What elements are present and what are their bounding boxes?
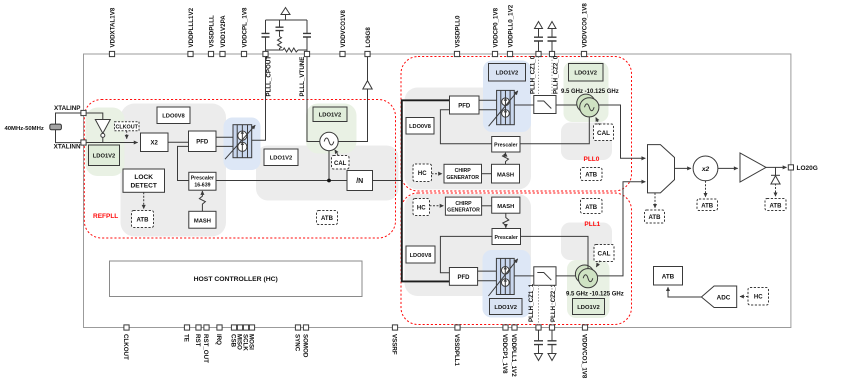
REFPLL PFD [189, 131, 217, 152]
PLL0 wire PFD to charge pump 1 [479, 99, 497, 101]
PLL0 PFD [450, 96, 480, 114]
PLL0 VCO 9.5-10.125 GHz [577, 94, 599, 117]
svg-text:LDO1V2: LDO1V2 [577, 305, 600, 311]
PLL0 dotted wire PLLH_CZ2_0 [551, 57, 553, 96]
PLL1 background region (gray) [405, 194, 532, 296]
REFPLL domain boundary (red dashed) [84, 100, 395, 239]
pin VDDCPL_1V8 [241, 51, 246, 56]
PLL1 wire prescaler to PFD feedback [440, 236, 492, 272]
svg-text:VSSRF: VSSRF [391, 334, 398, 355]
pin [536, 325, 541, 330]
detector diode [771, 167, 780, 184]
wire /N to PLL reference bus [373, 180, 402, 182]
wire PLLL_VTUNE stub [306, 50, 308, 54]
svg-text:ATB: ATB [585, 173, 598, 179]
svg-text:PFD: PFD [196, 140, 209, 146]
CLKOUT tap (dashed) [115, 122, 140, 139]
svg-text:Prescaler: Prescaler [495, 235, 518, 241]
svg-text:HC: HC [418, 171, 427, 177]
dashed arrow CAL to VCO [335, 150, 338, 155]
svg-text:VDDVCO1_1V8: VDDVCO1_1V8 [581, 334, 588, 379]
PLL1 wire PFD to charge pump 2 [478, 280, 497, 282]
PLL0 charge pump [489, 90, 518, 126]
LO mux selector [648, 145, 675, 193]
PLL1 CHIRP GENERATOR [445, 197, 481, 215]
PLL0 CAL background (gray) [561, 123, 612, 161]
svg-text:MASH: MASH [194, 218, 211, 224]
svg-text:PFD: PFD [458, 103, 471, 109]
svg-text:VDDPLL0_1V2: VDDPLL0_1V2 [507, 4, 514, 47]
PLL0 dashed arrow CAL to VCO [596, 118, 600, 126]
node feedback junction [327, 179, 331, 183]
PLL0 LDO0V8 [406, 118, 434, 135]
PLL0 squiggle arrow MASH to prescaler [503, 153, 509, 165]
PLL0 prescaler [492, 137, 520, 153]
dashed arrow x2 to ATB [705, 181, 707, 197]
REFPLL charge pump [225, 125, 255, 160]
svg-text:x2: x2 [701, 166, 710, 173]
svg-text:ATB: ATB [649, 215, 662, 221]
svg-text:LO6G8: LO6G8 [365, 27, 372, 48]
svg-text:GENERATOR: GENERATOR [446, 175, 479, 181]
pin TE [184, 325, 189, 330]
svg-text:XTALINP: XTALINP [54, 105, 80, 112]
svg-text:CSB: CSB [230, 334, 237, 348]
PLL1 charge pump [488, 258, 517, 296]
svg-text:HOST CONTROLLER (HC): HOST CONTROLLER (HC) [194, 276, 278, 283]
svg-text:ADC: ADC [717, 295, 731, 302]
PLL1 squiggle arrow MASH to prescaler [503, 213, 509, 228]
svg-text:RST_OUT: RST_OUT [202, 334, 209, 363]
pin VDDPLL1_1V2 [512, 325, 517, 330]
chip outline [84, 54, 791, 328]
PLL0 wire prescaler to PFD feedback [440, 110, 491, 144]
xtal buffer amplifier [95, 120, 110, 143]
REFPLL LDO0V8 [157, 107, 190, 124]
PLL1 HC control (dashed) [413, 199, 430, 216]
ATB test point (diode) [765, 199, 786, 211]
wire mux to x2 multiplier [675, 167, 692, 169]
wire buffer to LO6G8 pin [367, 57, 369, 81]
capacitor on PLLH_CZ1_0 [534, 22, 543, 52]
pin CLKOUT [124, 325, 129, 330]
crystal 40MHz-50MHz [50, 113, 81, 143]
svg-text:PLLL_VTUNE: PLLL_VTUNE [299, 57, 306, 97]
pin LO6G8 [365, 51, 370, 56]
PLL1 wire VCO to prescaler [521, 236, 589, 268]
wire XTALINP to buffer [86, 113, 103, 120]
svg-text:CLKOUT: CLKOUT [122, 334, 129, 360]
PLL1 wire VCO to mux [598, 182, 646, 276]
svg-text:CAL: CAL [334, 161, 347, 167]
pin [549, 325, 554, 330]
wire PFD to charge pump (up/dn) [216, 136, 233, 138]
LO output amplifier [740, 153, 766, 182]
dashed arrow LOCK DETECT to ATB [143, 192, 145, 208]
wire PLLL_VTUNE to VCO [307, 57, 320, 142]
LO6G8 output buffer amplifier [363, 81, 372, 89]
loop filter resistor R2 (horizontal) [283, 48, 298, 52]
svg-text:VDDPLLL1V2: VDDPLLL1V2 [188, 7, 195, 47]
svg-text:CAL: CAL [598, 251, 611, 258]
HC control for ADC (dashed) [748, 288, 769, 306]
svg-text:REFPLL: REFPLL [93, 213, 118, 220]
pin VDDPLL0_1V2 [507, 51, 512, 56]
REFPLL background region (gray) [121, 104, 227, 237]
REFPLL CAL block (dashed) [332, 156, 350, 170]
svg-text:PLLH_CZ1_0: PLLH_CZ1_0 [530, 55, 537, 94]
pin VDDVCO1V8 [340, 51, 345, 56]
svg-text:SOMOD: SOMOD [302, 334, 309, 358]
PLL0 domain boundary (red dashed) [401, 57, 632, 192]
svg-text:CAL: CAL [597, 130, 610, 137]
PLL0 wire loop filter to VCO [556, 104, 580, 106]
svg-text:XTALINN: XTALINN [54, 143, 81, 150]
svg-text:ATB: ATB [662, 274, 675, 281]
pin [549, 51, 554, 56]
svg-text:VSSDPLL0: VSSDPLL0 [454, 15, 461, 48]
svg-text:PLLL_CPOUT: PLLL_CPOUT [266, 56, 273, 97]
PLL1 wire PFD to charge pump 1 [478, 270, 497, 272]
PLL0 loop filter [534, 96, 556, 114]
svg-text:LDO1V2: LDO1V2 [270, 156, 293, 162]
REFPLL ATB test point 2 [317, 211, 338, 225]
wire charge pump to PLLL_CPOUT [252, 57, 266, 141]
svg-text:VDDVCO1V8: VDDVCO1V8 [340, 9, 347, 47]
PLL0 wire VCO to mux [599, 105, 645, 158]
REFPLL LDO1V2 (cp) [264, 149, 298, 166]
dashed arrow mux to ATB [654, 193, 656, 208]
PLL0 MASH modulator [492, 164, 520, 183]
svg-text:VSSDPLL1: VSSDPLL1 [453, 334, 460, 367]
svg-text:VDDXTAL1V8: VDDXTAL1V8 [109, 7, 116, 47]
PLL0 wire PFD to charge pump 2 [479, 109, 497, 111]
pin [536, 51, 541, 56]
svg-text:Prescaler: Prescaler [494, 143, 517, 149]
PLL1 PFD [449, 268, 477, 286]
REFPLL VCO oscillator [320, 132, 338, 150]
svg-text:ATB: ATB [137, 218, 150, 224]
pin RST_OUT [204, 325, 209, 330]
reference distribution bus wire [402, 100, 450, 281]
svg-text:MISO: MISO [236, 334, 243, 350]
PLL0 dotted wire PLLH_CZ1_0 [538, 57, 540, 96]
pin CSB [231, 325, 236, 330]
PLL1 wire loop filter to VCO [556, 275, 578, 277]
svg-text:16-639: 16-639 [194, 182, 210, 188]
capacitor on PLLH_CZ2_0 [548, 22, 557, 52]
svg-text:Prescaler: Prescaler [191, 176, 214, 182]
svg-text:VDDCPL_1V8: VDDCPL_1V8 [241, 7, 248, 47]
wire prescaler to PFD feedback input [178, 146, 189, 180]
svg-text:ATB: ATB [585, 205, 598, 211]
svg-text:RST: RST [194, 334, 201, 347]
ADC block [701, 286, 736, 308]
svg-text:DETECT: DETECT [131, 183, 157, 190]
PLL1 LDO1V2 (cp) [490, 299, 523, 315]
svg-text:VDD1V2PA: VDD1V2PA [220, 15, 227, 48]
loop filter capacitor C3 [303, 20, 311, 50]
wire XTALINN / buffer output to X2 [86, 142, 138, 144]
pin VDDCP1_1V8 [503, 325, 508, 330]
REFPLL VCO background (green) [306, 104, 357, 154]
PLL1 dashed arrow HC to chirp generator [430, 205, 444, 207]
svg-text:PLLH_CZ2_0: PLLH_CZ2_0 [553, 55, 560, 94]
PLL0 arrow chirp generator to MASH [482, 173, 492, 175]
ATB test point (mux) [645, 210, 665, 223]
wire X2 to PFD [168, 141, 189, 143]
pin VSSDPLL1 [455, 325, 460, 330]
svg-text:ATB: ATB [770, 203, 783, 209]
svg-text:ATB: ATB [701, 203, 714, 209]
svg-text:VSSDPLLL: VSSDPLLL [208, 15, 215, 48]
svg-text:VDDCP0_1V8: VDDCP0_1V8 [492, 7, 499, 47]
wire VCO to LO6G8 output buffer [338, 89, 367, 142]
wire PLLL_CPOUT stub [265, 50, 267, 54]
pin MOSI [249, 325, 254, 330]
PLL0 LDO1V2 (cp) [489, 64, 526, 82]
PLL0 wire charge pump to loop filter [514, 104, 534, 106]
loop filter bottom rail wire right [298, 49, 307, 51]
svg-text:LDO0V8: LDO0V8 [162, 114, 185, 120]
PLL1 prescaler [492, 229, 521, 245]
PLL1 dashed arrow CAL to VCO [596, 261, 600, 267]
PLL0 background region (gray) [405, 88, 532, 190]
svg-text:9.5 GHz -10.125 GHz: 9.5 GHz -10.125 GHz [561, 89, 619, 95]
svg-text:PLLH_CZ1_1: PLLH_CZ1_1 [528, 283, 535, 322]
svg-text:LDO1V2: LDO1V2 [494, 305, 517, 311]
svg-text:LDO1V2: LDO1V2 [496, 71, 519, 77]
PLL1 wire charge pump to loop filter [514, 275, 534, 277]
REFPLL ATB test point [132, 211, 154, 228]
svg-text:GENERATOR: GENERATOR [447, 208, 480, 214]
svg-text:MASH: MASH [497, 204, 514, 210]
PLL1 arrow chirp generator to MASH [482, 205, 492, 207]
PLL0 LDO1V2 (vco) [569, 64, 604, 82]
PLL1 dotted wire PLLH_CZ1_1 [538, 285, 540, 325]
svg-text:PFD: PFD [458, 275, 471, 281]
svg-text:LDO0V8: LDO0V8 [409, 124, 431, 130]
HOST CONTROLLER (HC) [110, 261, 363, 297]
pin SYNC [295, 325, 300, 330]
REFPLL prescaler 16-639 [189, 172, 216, 190]
PLL0 ATB test point [581, 168, 603, 181]
PLL1 CAL block (dashed) [594, 245, 614, 262]
svg-text:VDDCP1_1V8: VDDCP1_1V8 [501, 334, 508, 374]
svg-text:ATB: ATB [321, 216, 334, 222]
svg-text:LDO1V2: LDO1V2 [574, 71, 597, 77]
svg-text:SYNC: SYNC [294, 334, 301, 352]
svg-text:PLL0: PLL0 [584, 156, 600, 163]
loop filter resistor R1 (vertical) [278, 37, 282, 51]
pin IRQ [217, 325, 222, 330]
svg-text:/N: /N [356, 178, 363, 185]
pin VDDVCO0_1V8 [581, 51, 586, 56]
wire VCO to feedback node [328, 151, 330, 181]
PLL1 charge-pump background (blue) [483, 250, 531, 318]
PLL1 MASH modulator [492, 197, 520, 213]
PLL1 LDO1V2 (vco) [573, 299, 605, 315]
svg-text:IRQ: IRQ [215, 334, 222, 345]
loop filter top rail wire [266, 19, 308, 21]
REFPLL LDO1V2 (xtal) [89, 145, 120, 166]
PLL1 CAL background (gray) [561, 223, 612, 261]
wire x2 to output amplifier [718, 167, 738, 169]
PLL1 loop filter [534, 267, 556, 286]
svg-text:CHIRP: CHIRP [455, 201, 472, 207]
pin LO20G [788, 165, 793, 170]
svg-text:PLLH_CZ2_1: PLLH_CZ2_1 [550, 283, 557, 322]
svg-text:LOCK: LOCK [134, 174, 153, 181]
svg-text:40MHz-50MHz: 40MHz-50MHz [5, 126, 44, 132]
dashed arrow diode to ATB [775, 184, 777, 197]
PLL0 wire VCO to prescaler [520, 117, 589, 144]
REFPLL MASH modulator [189, 211, 216, 228]
dashed arrow HC to ADC [740, 296, 748, 298]
PLL0 CHIRP GENERATOR [444, 164, 482, 183]
x2 frequency multiplier [693, 156, 718, 181]
svg-text:LDO1V2: LDO1V2 [93, 154, 116, 160]
REFPLL signal band background (gray) [256, 146, 399, 201]
pin VDDPLLL1V2 [188, 51, 193, 56]
svg-text:LDO1V2: LDO1V2 [319, 113, 342, 119]
PLL0 charge-pump background (blue) [483, 61, 531, 133]
pin [263, 51, 268, 56]
pin SCLK [243, 325, 248, 330]
crystal input pins XTALINP/XTALINN [54, 105, 86, 150]
svg-text:CLKOUT: CLKOUT [115, 125, 138, 131]
wire PFD to charge pump 2 [216, 145, 233, 147]
svg-text:TE: TE [183, 334, 190, 342]
pin MISO [237, 325, 242, 330]
squiggle arrow MASH to prescaler [199, 191, 205, 211]
capacitor on PLLH_CZ2_1 [548, 330, 557, 360]
PLL1 LDO0V8 [406, 246, 435, 263]
ATB block (adc) [654, 267, 683, 286]
pin VSSDPLL0 [454, 51, 459, 56]
pin VSSDPLLL [208, 51, 213, 56]
PLL1 dotted wire PLLH_CZ2_1 [551, 285, 553, 325]
feedback wire to prescaler and /N [216, 180, 347, 182]
REFPLL charge-pump background (blue) [224, 118, 261, 171]
loop filter supply arrow [281, 8, 290, 21]
REFPLL xtal buffer background (green) [86, 108, 125, 177]
loop filter bottom rail wire [266, 49, 284, 51]
REFPLL divider /N [347, 171, 373, 191]
svg-text:VDDPLL1_1V2: VDDPLL1_1V2 [510, 334, 517, 377]
pin RST [196, 325, 201, 330]
svg-text:CHIRP: CHIRP [455, 168, 472, 174]
svg-text:MOSI: MOSI [248, 334, 255, 350]
wire ADC to ATB [668, 287, 701, 297]
svg-text:HC: HC [754, 295, 763, 301]
svg-text:HC: HC [417, 205, 426, 211]
capacitor on PLLH_CZ1_1 [534, 330, 543, 360]
svg-text:MASH: MASH [497, 172, 514, 178]
LOCK DETECT [123, 169, 165, 192]
PLL0 HC control (dashed) [413, 164, 432, 182]
pin SOMOD [303, 325, 308, 330]
svg-text:9.5 GHz -10.125 GHz: 9.5 GHz -10.125 GHz [566, 292, 624, 298]
pin VDDXTAL1V8 [109, 51, 114, 56]
loop filter capacitor C2 [276, 20, 284, 37]
pin VSSRF [392, 325, 397, 330]
PLL1 VCO background (green) [567, 260, 610, 318]
svg-text:VDDVCO0_1V8: VDDVCO0_1V8 [581, 3, 588, 48]
PLL0 CAL block (dashed) [594, 124, 614, 141]
pin VDDVCO1_1V8 [582, 325, 587, 330]
PLL1 ATB test point [581, 199, 603, 214]
pin VDDCP0_1V8 [492, 51, 497, 56]
wire amplifier to LO20G pin [766, 166, 787, 168]
PLL1 domain boundary (red dashed) [401, 193, 632, 325]
pin [304, 51, 309, 56]
svg-text:X2: X2 [151, 141, 159, 147]
loop filter capacitor C1 [262, 20, 270, 50]
svg-text:SCLK: SCLK [242, 334, 249, 351]
PLL1 VCO 9.5-10.125 GHz [575, 265, 597, 288]
PLL0 VCO background (green) [564, 62, 609, 123]
svg-text:LO20G: LO20G [797, 165, 818, 172]
pin VDD1V2PA [220, 51, 225, 56]
ATB test point (x2) [697, 199, 718, 211]
REFPLL LDO1V2 (vco) [313, 107, 347, 122]
svg-text:LDO0V8: LDO0V8 [410, 253, 432, 259]
svg-text:PLL1: PLL1 [584, 221, 600, 228]
frequency doubler X2 [141, 133, 169, 152]
PLL0 dashed arrow HC to chirp generator [432, 173, 443, 175]
